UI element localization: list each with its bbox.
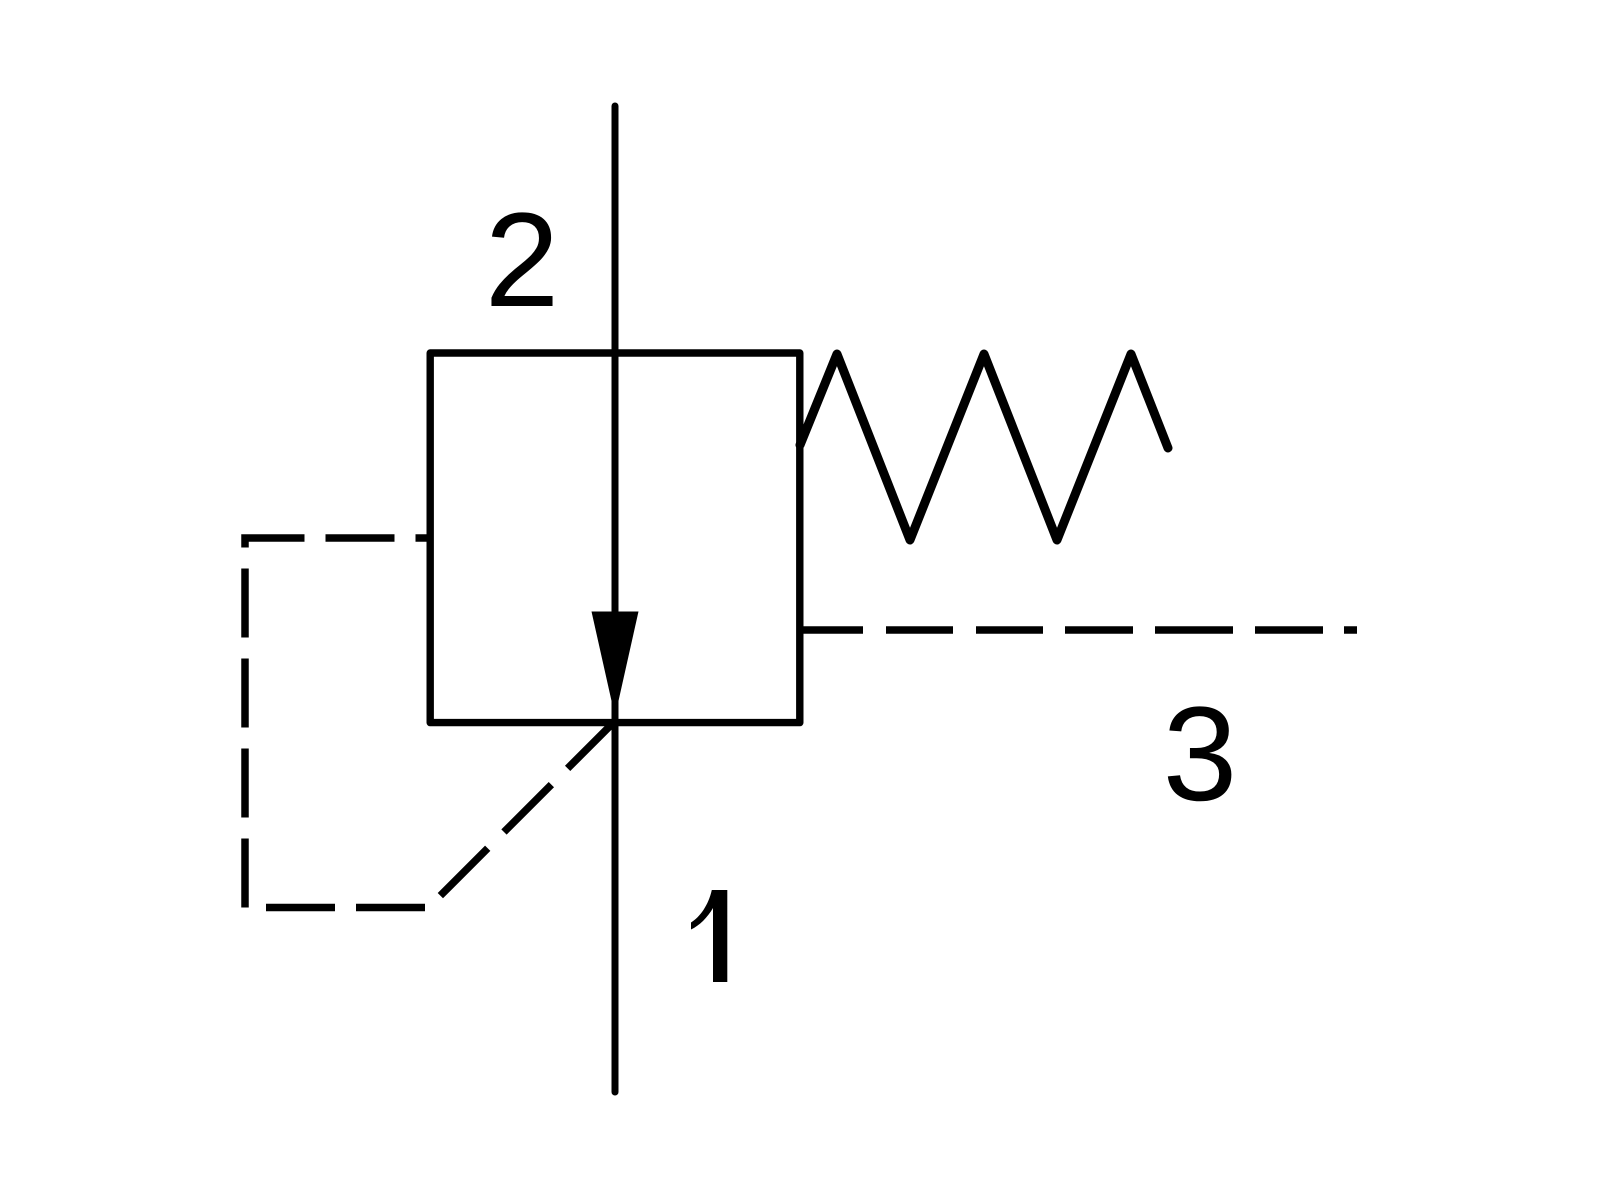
svg-text:2: 2 xyxy=(485,186,560,335)
svg-text:3: 3 xyxy=(1163,680,1238,829)
